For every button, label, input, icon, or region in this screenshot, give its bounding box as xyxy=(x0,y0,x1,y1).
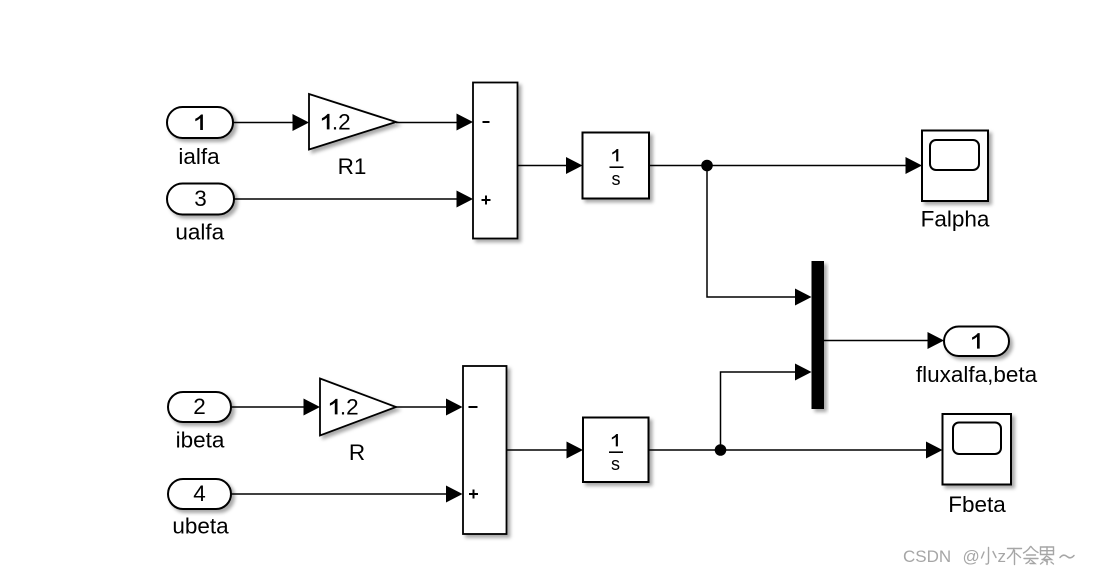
svg-text:s: s xyxy=(611,454,620,474)
arrowhead into scope Falpha xyxy=(906,157,923,174)
arrowhead into gain R1 xyxy=(293,114,310,131)
svg-text:R: R xyxy=(349,440,365,465)
gain R value 1.2 xyxy=(330,399,338,415)
svg-text:s: s xyxy=(612,169,621,189)
svg-text:z: z xyxy=(998,547,1007,566)
svg-text:4: 4 xyxy=(193,481,206,506)
integrator 2 xyxy=(583,418,649,483)
gain R1 triangle xyxy=(309,94,396,150)
sum block 2 xyxy=(463,366,507,534)
watermark tilde xyxy=(1060,555,1074,558)
arrowhead into sum1 minus xyxy=(457,114,474,131)
integrator2 fraction bar xyxy=(609,451,623,453)
wire sum2 to integrator2 xyxy=(507,449,576,451)
svg-text:ubeta: ubeta xyxy=(172,514,229,539)
inport 2 oval xyxy=(168,392,231,422)
sum block 1 xyxy=(473,83,518,239)
svg-text:ialfa: ialfa xyxy=(178,144,220,169)
outport 1 oval xyxy=(944,327,1009,357)
sum2 plus sign xyxy=(469,493,478,495)
wire mux to outport xyxy=(824,340,936,342)
svg-text:.2: .2 xyxy=(332,109,351,134)
wire inport4 to sum2 xyxy=(231,493,454,495)
svg-text:ualfa: ualfa xyxy=(175,220,224,245)
svg-text:.2: .2 xyxy=(340,394,359,419)
watermark hanzi bu xyxy=(1008,549,1022,565)
wire gain R1 to sum1 xyxy=(396,122,465,124)
wire integrator2 to scope Fbeta xyxy=(649,449,935,451)
svg-text:Fbeta: Fbeta xyxy=(948,492,1006,517)
svg-text:ibeta: ibeta xyxy=(176,428,225,453)
watermark hanzi lei xyxy=(1041,547,1054,565)
wire inport2 to gain R xyxy=(231,406,312,408)
mux bar xyxy=(812,261,825,409)
inport 1 oval xyxy=(167,107,233,138)
wire sum1 to integrator1 xyxy=(518,165,575,167)
arrowhead into integrator2 xyxy=(567,442,584,459)
arrowhead into outport xyxy=(928,332,945,349)
inport 4 oval xyxy=(168,479,231,509)
svg-text:Falpha: Falpha xyxy=(921,207,990,232)
junction dot top xyxy=(701,160,713,172)
scope Fbeta screen xyxy=(953,423,1001,455)
scope Fbeta xyxy=(943,414,1012,485)
inport 1 number xyxy=(195,115,203,131)
gain R1 value 1.2 xyxy=(322,114,330,130)
integrator1 fraction bar xyxy=(610,166,624,168)
sum2 minus sign xyxy=(469,406,478,408)
arrowhead into gain R xyxy=(304,399,321,416)
svg-text:3: 3 xyxy=(194,186,207,211)
svg-text:CSDN: CSDN xyxy=(903,547,951,566)
wire gain R to sum2 xyxy=(396,406,454,408)
arrowhead into sum2 plus xyxy=(446,486,463,503)
sum1 plus sign xyxy=(482,199,491,201)
arrowhead into sum1 plus xyxy=(457,191,474,208)
integrator 1 xyxy=(583,133,650,199)
wire integrator1 to scope Falpha xyxy=(649,165,914,167)
watermark hanzi hui xyxy=(1024,547,1039,564)
arrowhead into scope Fbeta xyxy=(926,442,943,459)
svg-text:fluxalfa,beta: fluxalfa,beta xyxy=(916,362,1038,387)
svg-text:R1: R1 xyxy=(338,154,367,179)
outport 1 number xyxy=(972,333,980,349)
scope Falpha screen xyxy=(930,140,979,170)
gain R triangle xyxy=(320,379,396,436)
integrator2 numerator 1 xyxy=(612,434,618,446)
branch wire bottom to mux input2 xyxy=(721,372,804,450)
arrowhead into mux input2 xyxy=(795,364,812,381)
branch wire top to mux input1 xyxy=(707,166,803,298)
arrowhead into integrator1 xyxy=(566,157,583,174)
svg-text:@: @ xyxy=(963,547,980,566)
arrowhead into sum2 minus xyxy=(446,399,463,416)
wire inport1 to gain R1 xyxy=(233,122,300,124)
sum1 minus sign xyxy=(483,121,490,123)
wire inport3 to sum1 xyxy=(234,198,465,200)
svg-text:2: 2 xyxy=(193,394,206,419)
scope Falpha xyxy=(922,131,988,202)
junction dot bottom xyxy=(715,444,727,456)
watermark hanzi xiao xyxy=(982,548,997,565)
integrator1 numerator 1 xyxy=(612,149,618,161)
inport 3 oval xyxy=(167,184,234,215)
arrowhead into mux input1 xyxy=(795,289,812,306)
